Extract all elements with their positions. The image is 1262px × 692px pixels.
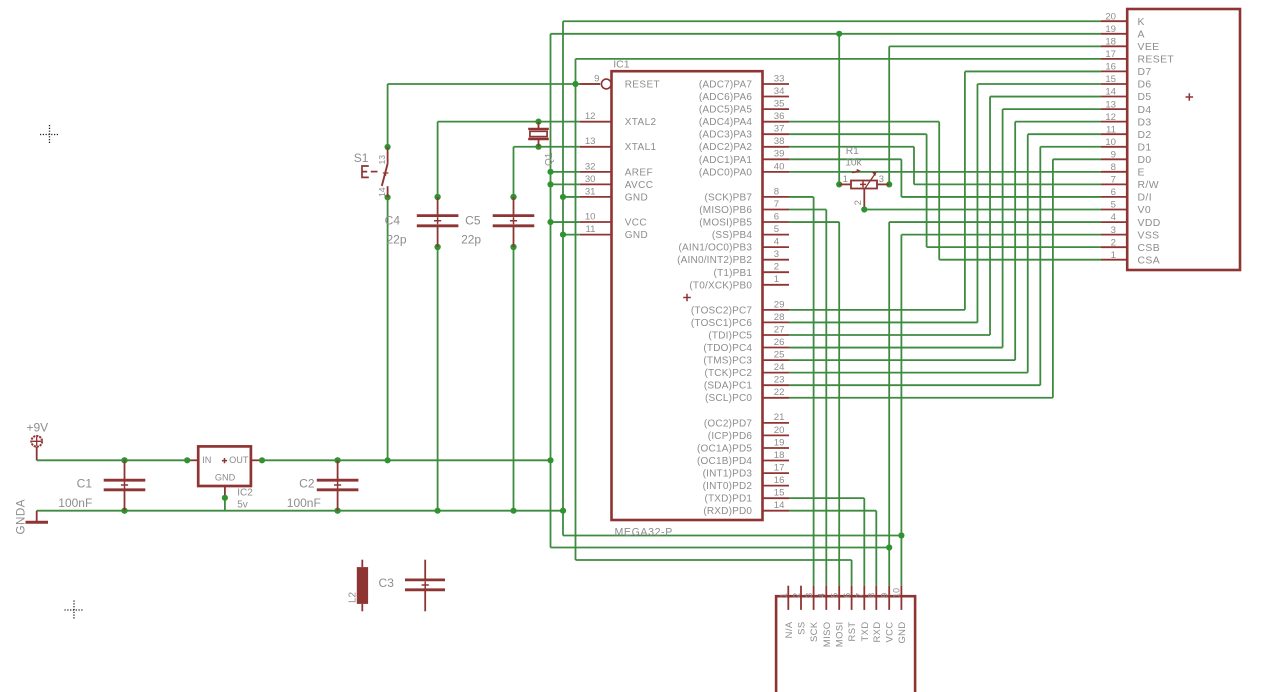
svg-text:(OC2)PD7: (OC2)PD7: [704, 418, 753, 429]
svg-text:7: 7: [774, 199, 779, 210]
svg-text:(MOSI)PB5: (MOSI)PB5: [699, 218, 752, 229]
svg-text:10: 10: [1105, 137, 1116, 148]
svg-text:1: 1: [1111, 250, 1116, 261]
svg-text:D1: D1: [1138, 142, 1152, 153]
svg-text:D/I: D/I: [1138, 193, 1152, 204]
svg-text:GND: GND: [625, 230, 648, 241]
svg-text:22p: 22p: [386, 233, 406, 247]
svg-text:2: 2: [852, 200, 863, 205]
svg-text:RXD: RXD: [871, 622, 882, 643]
svg-text:1: 1: [774, 274, 779, 285]
svg-text:4: 4: [774, 237, 780, 248]
svg-text:(TMS)PC3: (TMS)PC3: [703, 356, 752, 367]
svg-text:(ICP)PD6: (ICP)PD6: [708, 431, 753, 442]
svg-text:+9V: +9V: [27, 421, 49, 435]
svg-text:(SS)PB4: (SS)PB4: [712, 230, 753, 241]
svg-text:6: 6: [842, 593, 852, 598]
svg-text:(TDI)PC5: (TDI)PC5: [708, 331, 752, 342]
svg-text:19: 19: [1105, 24, 1116, 35]
svg-text:20: 20: [1105, 11, 1116, 22]
svg-text:1: 1: [779, 593, 789, 598]
svg-text:15: 15: [1105, 74, 1116, 85]
svg-text:22p: 22p: [461, 233, 481, 247]
svg-text:IC1: IC1: [613, 59, 630, 71]
svg-text:C5: C5: [465, 214, 481, 228]
svg-text:RESET: RESET: [1138, 55, 1175, 66]
svg-text:C3: C3: [379, 576, 395, 590]
svg-text:(TDO)PC4: (TDO)PC4: [703, 343, 752, 354]
svg-text:23: 23: [774, 375, 785, 386]
svg-text:(SCL)PC0: (SCL)PC0: [705, 393, 752, 404]
svg-text:2: 2: [791, 593, 801, 598]
svg-text:(INT1)PD3: (INT1)PD3: [703, 469, 753, 480]
svg-text:5: 5: [830, 593, 840, 598]
svg-text:36: 36: [774, 111, 785, 122]
svg-text:8: 8: [867, 593, 877, 598]
svg-text:15: 15: [774, 488, 785, 499]
svg-text:VCC: VCC: [884, 622, 895, 643]
svg-text:(TOSC1)PC6: (TOSC1)PC6: [691, 318, 753, 329]
svg-text:30: 30: [585, 174, 596, 185]
svg-text:MEGA32-P: MEGA32-P: [615, 526, 673, 538]
svg-text:13: 13: [1105, 99, 1116, 110]
svg-text:GND: GND: [625, 192, 648, 203]
svg-text:100nF: 100nF: [58, 496, 92, 510]
svg-text:17: 17: [1105, 49, 1116, 60]
svg-text:TXD: TXD: [859, 622, 870, 642]
svg-text:D3: D3: [1138, 117, 1152, 128]
svg-text:(OC1B)PD4: (OC1B)PD4: [697, 456, 752, 467]
svg-text:14: 14: [1105, 87, 1116, 98]
svg-text:S1: S1: [354, 151, 369, 165]
svg-text:3: 3: [879, 173, 884, 184]
svg-text:33: 33: [774, 73, 785, 84]
svg-text:22: 22: [774, 387, 785, 398]
svg-text:7: 7: [855, 593, 865, 598]
svg-text:2: 2: [774, 262, 779, 273]
svg-text:L2: L2: [348, 591, 359, 603]
svg-text:9: 9: [594, 73, 599, 84]
svg-text:(OC1A)PD5: (OC1A)PD5: [697, 444, 752, 455]
svg-text:C2: C2: [299, 477, 315, 491]
svg-text:(ADC6)PA6: (ADC6)PA6: [699, 92, 753, 103]
svg-text:9: 9: [880, 593, 890, 598]
svg-text:2: 2: [1111, 237, 1116, 248]
svg-text:(T0/XCK)PB0: (T0/XCK)PB0: [689, 280, 752, 291]
svg-text:(INT0)PD2: (INT0)PD2: [703, 481, 753, 492]
svg-text:14: 14: [774, 500, 785, 511]
svg-text:24: 24: [774, 362, 785, 373]
svg-text:SS: SS: [796, 622, 807, 635]
svg-text:AREF: AREF: [625, 167, 653, 178]
svg-text:N/A: N/A: [783, 621, 794, 638]
svg-text:12: 12: [585, 111, 596, 122]
svg-text:28: 28: [774, 312, 785, 323]
svg-text:100nF: 100nF: [287, 496, 321, 510]
svg-text:A: A: [1138, 30, 1145, 41]
svg-text:11: 11: [1106, 124, 1116, 135]
svg-text:40: 40: [774, 161, 785, 172]
svg-text:29: 29: [774, 299, 785, 310]
svg-text:17: 17: [774, 462, 785, 473]
svg-text:(RXD)PD0: (RXD)PD0: [703, 506, 752, 517]
svg-text:E: E: [1138, 168, 1145, 179]
svg-text:CSB: CSB: [1138, 243, 1161, 254]
svg-text:(SDA)PC1: (SDA)PC1: [704, 381, 753, 392]
svg-text:D7: D7: [1138, 67, 1152, 78]
svg-text:AVCC: AVCC: [625, 180, 654, 191]
svg-text:(AIN1/OC0)PB3: (AIN1/OC0)PB3: [678, 243, 752, 254]
svg-text:32: 32: [585, 161, 596, 172]
svg-text:18: 18: [774, 450, 785, 461]
svg-text:D5: D5: [1138, 92, 1152, 103]
svg-text:SCK: SCK: [808, 621, 819, 642]
svg-text:3: 3: [804, 593, 814, 598]
svg-text:C4: C4: [385, 214, 401, 228]
svg-text:9: 9: [1111, 150, 1116, 161]
svg-text:7: 7: [1111, 175, 1116, 186]
svg-text:35: 35: [774, 99, 785, 110]
svg-text:18: 18: [1105, 37, 1116, 48]
svg-text:5v: 5v: [237, 500, 248, 511]
svg-text:38: 38: [774, 136, 785, 147]
svg-text:16: 16: [1105, 62, 1116, 73]
svg-text:4: 4: [1111, 212, 1117, 223]
svg-text:(MISO)PB6: (MISO)PB6: [699, 205, 752, 216]
svg-text:XTAL2: XTAL2: [625, 117, 657, 128]
svg-text:10: 10: [585, 211, 596, 222]
svg-text:K: K: [1138, 17, 1145, 28]
svg-text:(AIN0/INT2)PB2: (AIN0/INT2)PB2: [677, 255, 752, 266]
svg-text:12: 12: [1105, 112, 1116, 123]
svg-text:(TXD)PD1: (TXD)PD1: [704, 494, 752, 505]
svg-text:C1: C1: [77, 477, 93, 491]
svg-text:(ADC5)PA5: (ADC5)PA5: [699, 105, 753, 116]
svg-text:XTAL1: XTAL1: [625, 142, 657, 153]
svg-text:(ADC1)PA1: (ADC1)PA1: [699, 155, 753, 166]
svg-text:D4: D4: [1138, 105, 1152, 116]
svg-text:25: 25: [774, 350, 785, 361]
svg-text:V0: V0: [1138, 205, 1152, 216]
svg-text:6: 6: [1111, 187, 1116, 198]
svg-text:27: 27: [774, 324, 785, 335]
svg-text:GNDA: GNDA: [14, 499, 27, 535]
svg-text:VCC: VCC: [625, 218, 647, 229]
svg-text:3: 3: [774, 249, 779, 260]
svg-text:RESET: RESET: [625, 80, 660, 91]
svg-text:Q1: Q1: [544, 152, 555, 166]
svg-text:5: 5: [1111, 200, 1116, 211]
svg-text:VEE: VEE: [1138, 42, 1160, 53]
svg-text:OUT: OUT: [229, 455, 249, 465]
svg-text:10: 10: [892, 588, 902, 598]
svg-text:D2: D2: [1138, 130, 1152, 141]
svg-text:39: 39: [774, 149, 785, 160]
svg-text:VDD: VDD: [1138, 218, 1161, 229]
svg-text:5: 5: [774, 224, 779, 235]
svg-text:(ADC2)PA2: (ADC2)PA2: [699, 142, 753, 153]
svg-text:8: 8: [774, 186, 779, 197]
svg-text:26: 26: [774, 337, 785, 348]
svg-text:21: 21: [774, 412, 785, 423]
svg-text:D0: D0: [1138, 155, 1152, 166]
svg-text:IN: IN: [202, 455, 211, 465]
svg-text:R1: R1: [846, 146, 859, 157]
svg-text:MISO: MISO: [821, 622, 832, 648]
svg-text:VSS: VSS: [1138, 230, 1160, 241]
svg-text:(ADC3)PA3: (ADC3)PA3: [699, 130, 753, 141]
svg-text:MOSI: MOSI: [834, 622, 845, 648]
svg-text:19: 19: [774, 437, 785, 448]
svg-text:GND: GND: [215, 472, 236, 482]
svg-text:34: 34: [774, 86, 785, 97]
svg-text:(SCK)PB7: (SCK)PB7: [704, 192, 752, 203]
svg-text:8: 8: [1111, 162, 1116, 173]
svg-text:37: 37: [774, 124, 785, 135]
svg-text:(ADC4)PA4: (ADC4)PA4: [699, 117, 753, 128]
svg-text:31: 31: [585, 186, 596, 197]
svg-text:(ADC0)PA0: (ADC0)PA0: [699, 167, 753, 178]
svg-text:3: 3: [1111, 225, 1116, 236]
svg-text:4: 4: [817, 593, 827, 598]
svg-text:13: 13: [585, 136, 596, 147]
svg-text:11: 11: [586, 224, 596, 235]
svg-text:(TOSC2)PC7: (TOSC2)PC7: [691, 305, 753, 316]
svg-text:16: 16: [774, 475, 785, 486]
svg-text:14: 14: [377, 187, 387, 197]
svg-text:20: 20: [774, 425, 785, 436]
svg-text:(TCK)PC2: (TCK)PC2: [704, 368, 752, 379]
svg-text:R/W: R/W: [1138, 180, 1159, 191]
svg-text:1: 1: [843, 173, 848, 184]
svg-text:6: 6: [774, 211, 779, 222]
svg-text:RST: RST: [846, 622, 857, 642]
svg-text:(T1)PB1: (T1)PB1: [714, 268, 753, 279]
svg-text:13: 13: [377, 155, 387, 165]
svg-text:IC2: IC2: [237, 488, 253, 499]
svg-text:D6: D6: [1138, 80, 1152, 91]
svg-text:10k: 10k: [845, 158, 862, 169]
svg-text:(ADC7)PA7: (ADC7)PA7: [699, 80, 753, 91]
svg-text:GND: GND: [896, 622, 907, 644]
svg-text:CSA: CSA: [1138, 255, 1161, 266]
